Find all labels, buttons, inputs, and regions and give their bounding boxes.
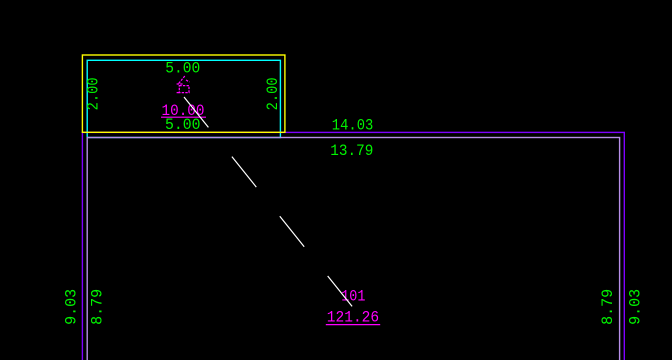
svg-text:13.79: 13.79	[330, 142, 373, 160]
svg-text:14.03: 14.03	[332, 116, 374, 134]
svg-text:8.79: 8.79	[599, 289, 617, 325]
svg-text:101: 101	[341, 287, 365, 305]
svg-text:5.00: 5.00	[165, 59, 200, 77]
svg-text:9.03: 9.03	[63, 289, 81, 325]
svg-text:2.00: 2.00	[85, 77, 103, 110]
svg-text:9.03: 9.03	[627, 289, 645, 325]
svg-text:8.79: 8.79	[88, 289, 106, 325]
svg-text:2.00: 2.00	[264, 77, 282, 110]
